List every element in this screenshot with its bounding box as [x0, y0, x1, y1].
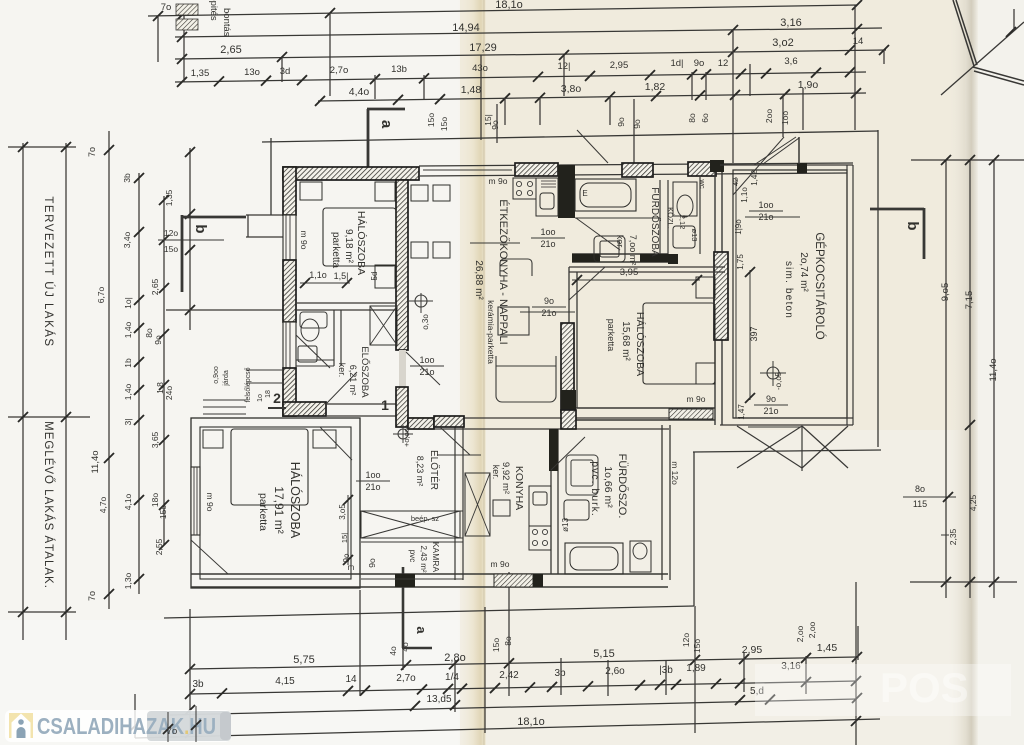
svg-text:4,1o: 4,1o — [123, 493, 133, 510]
svg-text:1,35: 1,35 — [164, 189, 174, 206]
svg-text:pvc: pvc — [408, 550, 417, 562]
svg-text:1oo: 1oo — [365, 470, 380, 480]
svg-text:1,89: 1,89 — [686, 663, 706, 674]
svg-text:6,7o: 6,7o — [96, 286, 106, 303]
svg-text:GÉPKOCSITÁROLÓ: GÉPKOCSITÁROLÓ — [813, 232, 826, 339]
svg-text:wc: wc — [698, 178, 707, 188]
svg-text:-o,o5: -o,o5 — [774, 371, 783, 390]
svg-text:o,9oo: o,9oo — [213, 366, 220, 384]
svg-text:17,29: 17,29 — [469, 42, 497, 54]
svg-text:m 9o: m 9o — [205, 493, 215, 512]
svg-text:CSALADIHAZAK.HU: CSALADIHAZAK.HU — [37, 713, 216, 739]
svg-text:7o: 7o — [87, 591, 97, 601]
svg-text:1,4o: 1,4o — [123, 321, 133, 338]
svg-text:21o: 21o — [419, 367, 434, 377]
svg-text:8o: 8o — [687, 113, 697, 123]
svg-text:2o,74 m²: 2o,74 m² — [798, 252, 809, 292]
svg-text:2,95: 2,95 — [742, 644, 763, 656]
svg-text:4,7o: 4,7o — [98, 496, 108, 513]
svg-text:3,65: 3,65 — [150, 431, 160, 448]
svg-text:KAMRA: KAMRA — [431, 542, 441, 573]
svg-text:a: a — [414, 626, 429, 634]
svg-text:9o: 9o — [632, 119, 642, 129]
svg-text:9o: 9o — [616, 117, 626, 127]
svg-text:FÜRDŐSZOBA: FÜRDŐSZOBA — [649, 187, 663, 257]
svg-text:HÁLÓSZOBA: HÁLÓSZOBA — [288, 462, 303, 539]
svg-text:15o: 15o — [692, 639, 702, 653]
svg-text:15o: 15o — [426, 113, 436, 127]
svg-text:11,4o: 11,4o — [988, 358, 999, 381]
svg-text:1o: 1o — [257, 394, 264, 402]
svg-text:7,oo m²: 7,oo m² — [628, 235, 638, 266]
svg-text:ker.: ker. — [615, 235, 625, 250]
svg-text:4,4o: 4,4o — [349, 86, 370, 98]
svg-text:b: b — [192, 224, 209, 233]
svg-text:15o: 15o — [164, 244, 178, 254]
svg-text:13b: 13b — [391, 64, 407, 75]
svg-text:13,d5: 13,d5 — [426, 694, 451, 705]
svg-text:3|: 3| — [123, 419, 133, 426]
svg-text:1|9o: 1|9o — [734, 219, 743, 235]
svg-text:13o: 13o — [244, 67, 260, 78]
svg-text:7o: 7o — [87, 147, 97, 157]
svg-text:4o: 4o — [388, 646, 398, 656]
svg-text:2,35: 2,35 — [948, 528, 958, 545]
svg-text:1,1o: 1,1o — [309, 270, 327, 280]
svg-text:3,o2: 3,o2 — [772, 37, 793, 49]
svg-text:TERVEZETT ÚJ LAKÁS: TERVEZETT ÚJ LAKÁS — [42, 196, 55, 347]
svg-text:1oo: 1oo — [780, 111, 790, 125]
svg-text:1d|: 1d| — [670, 58, 683, 69]
svg-text:3b: 3b — [122, 173, 132, 183]
svg-text:12: 12 — [718, 58, 729, 69]
svg-text:2oo: 2oo — [764, 109, 774, 123]
svg-text:parketta: parketta — [257, 493, 269, 531]
svg-text:E: E — [582, 189, 587, 198]
svg-text:3b: 3b — [554, 668, 566, 679]
svg-text:1oo: 1oo — [758, 200, 773, 210]
svg-text:3,4o: 3,4o — [122, 231, 132, 248]
svg-text:3d: 3d — [280, 66, 291, 77]
svg-text:115: 115 — [913, 499, 927, 509]
svg-text:7,15: 7,15 — [964, 291, 975, 310]
svg-text:MEGLÉVŐ LAKÁS ÁTALAK.: MEGLÉVŐ LAKÁS ÁTALAK. — [42, 421, 56, 589]
svg-text:8o: 8o — [915, 484, 925, 494]
svg-text:o,3o: o,3o — [421, 314, 430, 330]
svg-text:9o: 9o — [490, 120, 500, 130]
svg-text:m 9o: m 9o — [687, 394, 706, 404]
svg-text:8o: 8o — [503, 636, 513, 646]
svg-text:2,65: 2,65 — [150, 278, 160, 295]
svg-text:2,95: 2,95 — [610, 60, 629, 71]
svg-text:24o: 24o — [164, 386, 174, 400]
svg-text:14,94: 14,94 — [452, 22, 480, 34]
svg-text:9o: 9o — [153, 335, 163, 345]
svg-text:felsőlépcső: felsőlépcső — [245, 367, 252, 402]
svg-text:1oo: 1oo — [540, 227, 555, 237]
svg-text:2,oo: 2,oo — [807, 621, 817, 638]
svg-text:1,82: 1,82 — [645, 81, 666, 93]
svg-text:12o: 12o — [164, 228, 178, 238]
svg-text:m 12o: m 12o — [670, 461, 680, 485]
svg-text:5,15: 5,15 — [593, 648, 614, 660]
svg-text:9o: 9o — [766, 394, 776, 404]
svg-text:17,91 m²: 17,91 m² — [272, 486, 286, 533]
svg-text:397: 397 — [749, 326, 759, 341]
svg-text:ø13: ø13 — [561, 518, 570, 532]
svg-text:1o,66 m²: 1o,66 m² — [602, 466, 614, 508]
svg-text:5,75: 5,75 — [293, 654, 314, 666]
svg-text:9,18 m²: 9,18 m² — [343, 229, 354, 264]
svg-text:FÜRDŐSZO.: FÜRDŐSZO. — [616, 454, 630, 519]
svg-text:18,1o: 18,1o — [517, 716, 545, 728]
svg-text:4,25: 4,25 — [968, 494, 978, 511]
svg-text:3,o5: 3,o5 — [338, 504, 347, 520]
svg-text:4,15: 4,15 — [275, 676, 295, 687]
svg-text:+o,oo: +o,oo — [402, 428, 411, 447]
svg-text:1o|: 1o| — [123, 297, 133, 309]
svg-text:12o: 12o — [681, 633, 691, 647]
svg-text:9o: 9o — [694, 58, 705, 69]
svg-text:járda: járda — [223, 370, 230, 387]
svg-text:ELŐSZOBA: ELŐSZOBA — [359, 346, 370, 398]
svg-text:KONYHA: KONYHA — [513, 466, 525, 510]
svg-text:ELŐTÉR: ELŐTÉR — [428, 450, 442, 490]
svg-text:15o: 15o — [158, 505, 168, 519]
svg-text:9o: 9o — [367, 558, 377, 568]
svg-text:1b: 1b — [123, 358, 133, 368]
svg-text:3,6: 3,6 — [784, 56, 797, 67]
svg-text:21o: 21o — [541, 308, 556, 318]
svg-text:1,35: 1,35 — [191, 68, 210, 79]
svg-text:2,7o: 2,7o — [396, 673, 416, 684]
svg-text:18,1o: 18,1o — [495, 0, 523, 11]
svg-text:beép. sz: beép. sz — [411, 514, 440, 523]
svg-text:3,95: 3,95 — [620, 267, 639, 278]
svg-text:8,23 m²: 8,23 m² — [415, 456, 425, 487]
svg-text:1,48: 1,48 — [461, 84, 482, 96]
svg-text:parketta: parketta — [330, 232, 341, 269]
svg-text:ker.: ker. — [491, 465, 501, 480]
svg-text:9,o5: 9,o5 — [940, 283, 951, 302]
svg-text:6,21 m²: 6,21 m² — [348, 365, 358, 396]
svg-text:ker.: ker. — [337, 363, 347, 378]
svg-text:9o: 9o — [544, 296, 554, 306]
svg-text:m 9o: m 9o — [491, 559, 510, 569]
svg-text:1,5|: 1,5| — [334, 271, 349, 281]
svg-text:HÁLÓSZOBA: HÁLÓSZOBA — [355, 211, 368, 275]
svg-text:21o: 21o — [540, 239, 555, 249]
svg-text:a: a — [378, 120, 395, 129]
svg-text:2,7o: 2,7o — [330, 65, 349, 76]
svg-text:HÁLÓSZOBA: HÁLÓSZOBA — [634, 312, 647, 376]
svg-text:m: m — [348, 563, 355, 572]
svg-text:1,42: 1,42 — [750, 170, 759, 186]
svg-text:1/4: 1/4 — [445, 672, 459, 683]
svg-text:15o: 15o — [439, 117, 449, 131]
svg-text:1,9o: 1,9o — [798, 79, 819, 91]
svg-text:m 9o: m 9o — [489, 176, 508, 186]
svg-text:1,45: 1,45 — [817, 642, 838, 654]
svg-text:1: 1 — [381, 397, 389, 413]
svg-text:POS: POS — [880, 664, 969, 711]
svg-text:2,55: 2,55 — [154, 538, 164, 555]
svg-text:épités: épités — [208, 0, 219, 21]
svg-text:43o: 43o — [472, 63, 488, 74]
svg-text:5d: 5d — [370, 272, 379, 281]
svg-text:2,65: 2,65 — [220, 44, 241, 56]
svg-text:2,oo: 2,oo — [795, 625, 805, 642]
svg-text:1,75: 1,75 — [736, 254, 745, 270]
svg-text:21o: 21o — [763, 406, 778, 416]
svg-text:m 9o: m 9o — [299, 231, 309, 250]
svg-text:6o: 6o — [700, 113, 710, 123]
svg-text:1,47: 1,47 — [737, 404, 746, 420]
svg-text:3,16: 3,16 — [780, 17, 801, 29]
svg-text:ø13: ø13 — [690, 229, 699, 242]
svg-text:1,3o: 1,3o — [123, 572, 133, 589]
svg-text:1,1o: 1,1o — [740, 187, 749, 203]
svg-text:18: 18 — [265, 390, 272, 398]
svg-text:parketta: parketta — [606, 319, 616, 352]
svg-text:11,4o: 11,4o — [90, 450, 101, 473]
svg-text:26,88 m²: 26,88 m² — [473, 260, 484, 300]
svg-text:3b: 3b — [192, 679, 204, 690]
svg-text:bontás: bontás — [221, 8, 232, 37]
svg-text:KÖZL.: KÖZL. — [666, 207, 675, 229]
svg-text:ÉTKEZŐKONYHA - NAPPALI: ÉTKEZŐKONYHA - NAPPALI — [497, 199, 511, 344]
svg-text:pvc. burk.: pvc. burk. — [589, 461, 601, 517]
svg-text:kerámia-parketta: kerámia-parketta — [486, 300, 496, 364]
svg-text:2,43 m²: 2,43 m² — [419, 545, 428, 572]
svg-text:14: 14 — [345, 674, 357, 685]
svg-text:1oo: 1oo — [419, 355, 434, 365]
svg-text:sim. beton: sim. beton — [783, 261, 794, 319]
svg-text:15,68 m²: 15,68 m² — [620, 321, 631, 361]
svg-text:1,4o: 1,4o — [123, 383, 133, 400]
svg-text:21o: 21o — [365, 482, 380, 492]
svg-text:2: 2 — [273, 390, 281, 406]
svg-text:b: b — [904, 221, 921, 230]
svg-text:15o: 15o — [491, 638, 501, 652]
svg-text:2,12: 2,12 — [678, 215, 687, 230]
